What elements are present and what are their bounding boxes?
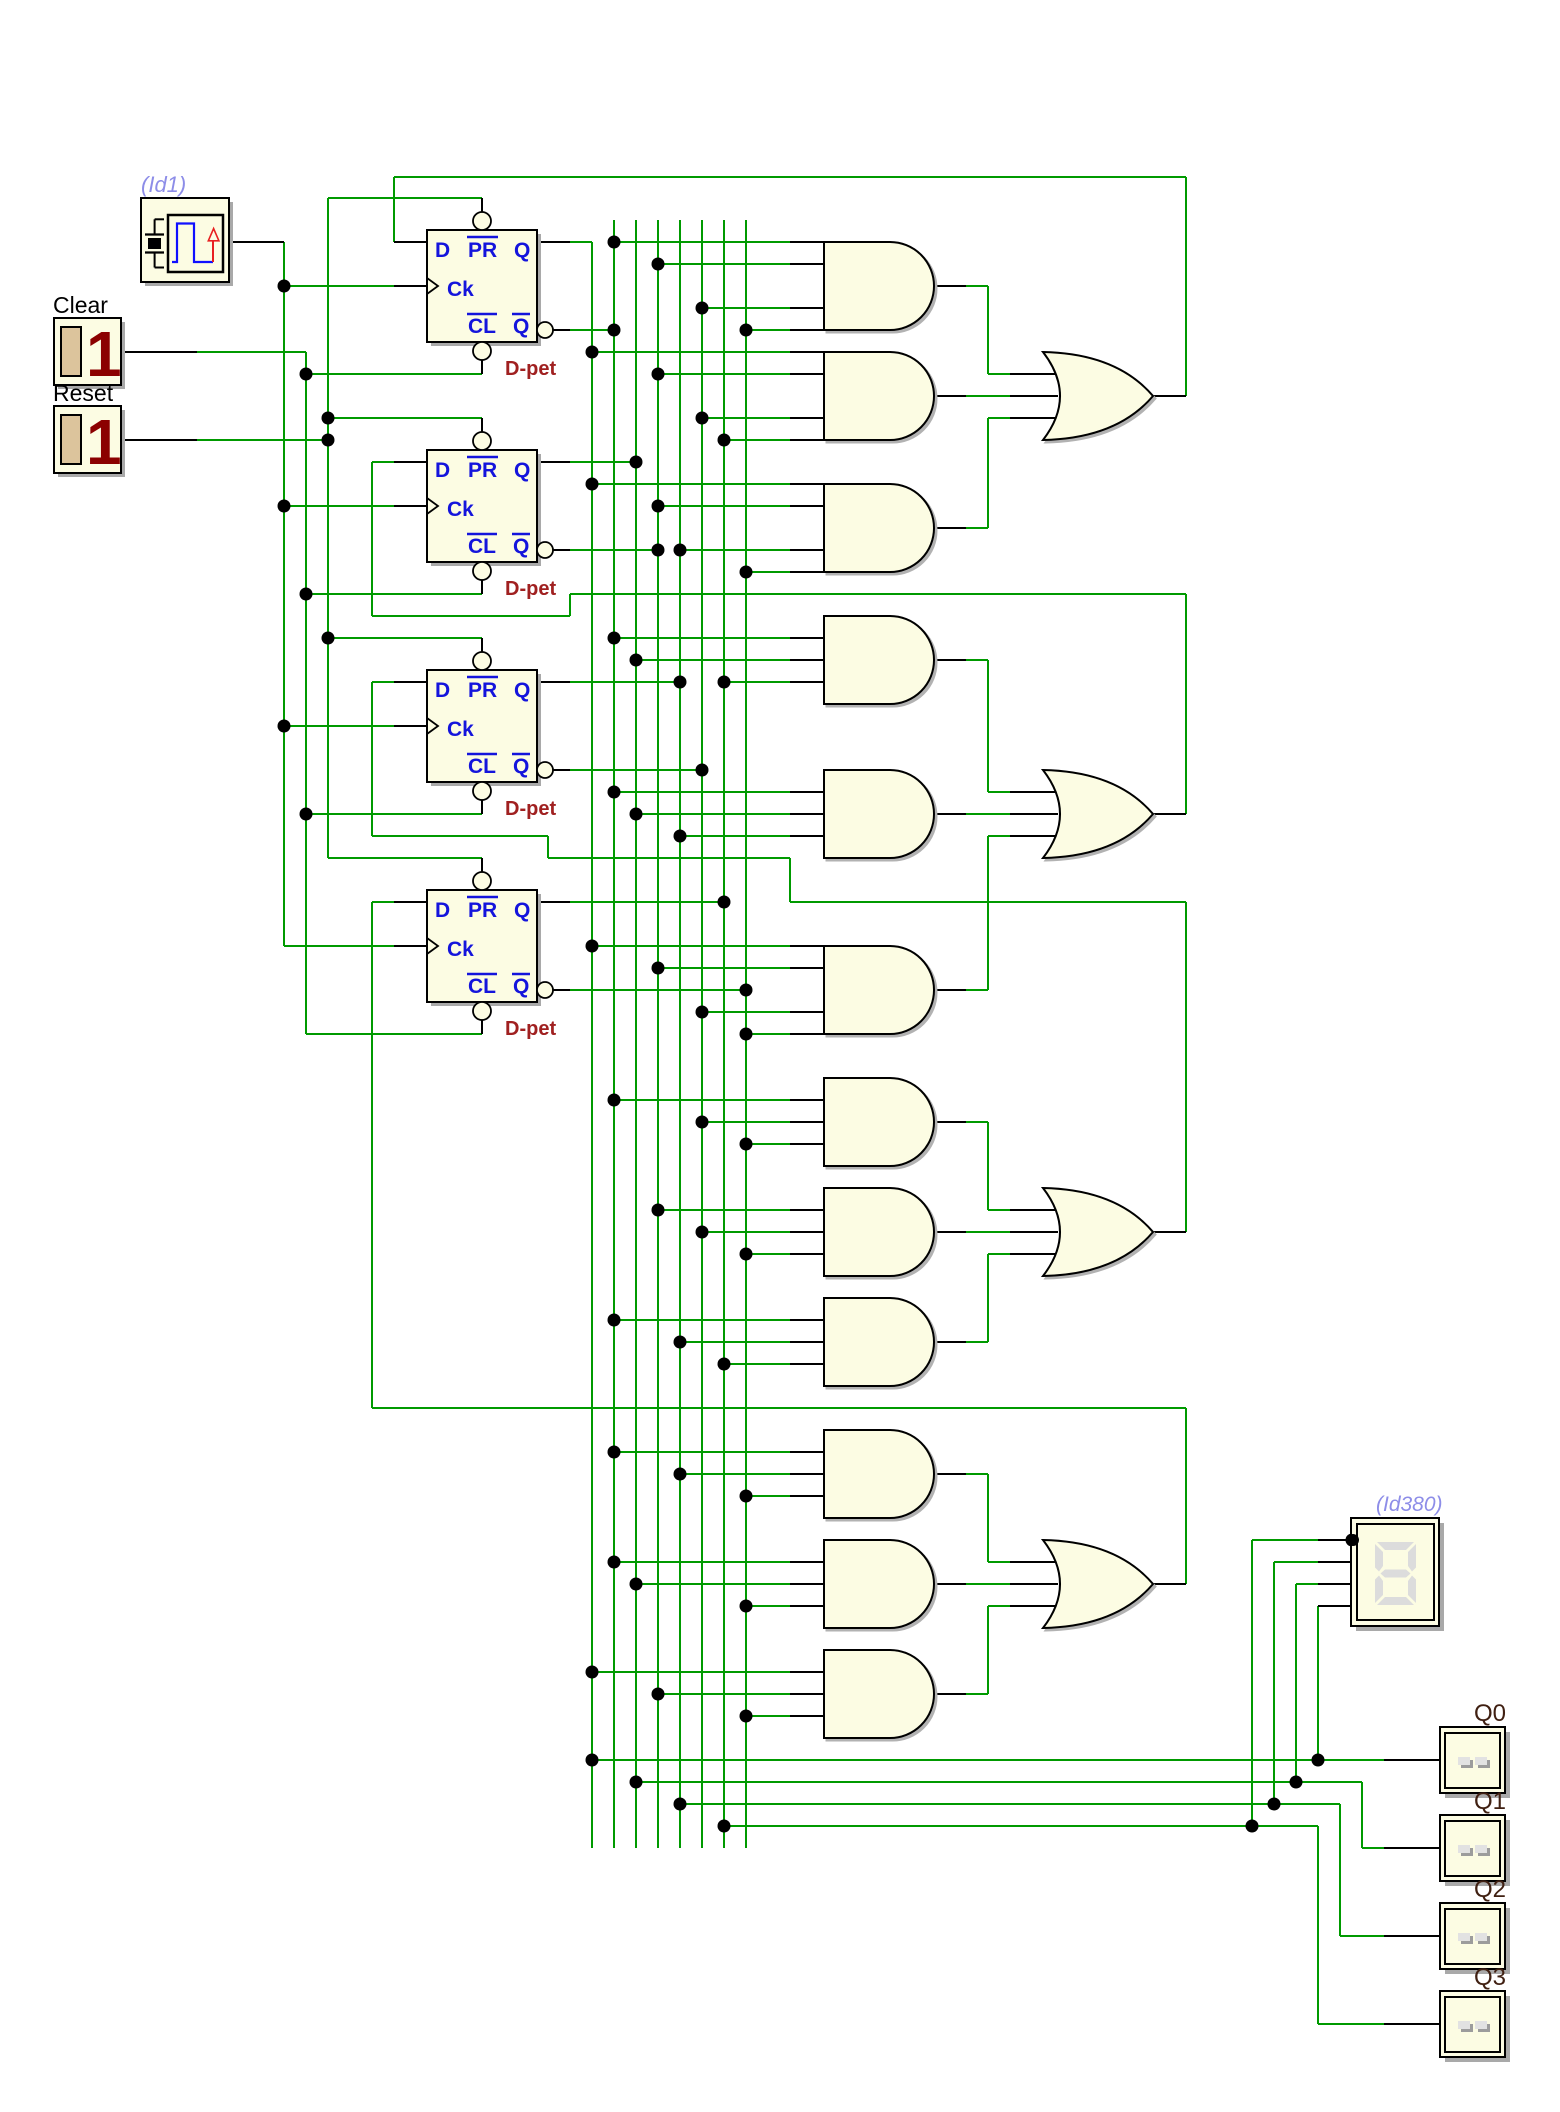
svg-text:Q: Q — [514, 239, 530, 262]
svg-text:D-pet: D-pet — [505, 358, 556, 380]
svg-text:D: D — [435, 459, 450, 482]
svg-text:Q: Q — [513, 535, 529, 558]
svg-text:CL: CL — [468, 975, 496, 998]
svg-text:CL: CL — [468, 535, 496, 558]
svg-text:Q: Q — [513, 315, 529, 338]
svg-text:D-pet: D-pet — [505, 1018, 556, 1040]
svg-text:Ck: Ck — [447, 938, 474, 961]
svg-text:PR: PR — [468, 239, 497, 262]
svg-text:Q: Q — [514, 899, 530, 922]
svg-text:Q3: Q3 — [1474, 1964, 1506, 1991]
svg-text:D: D — [435, 239, 450, 262]
svg-text:Ck: Ck — [447, 498, 474, 521]
svg-text:Reset: Reset — [53, 380, 114, 406]
svg-text:PR: PR — [468, 459, 497, 482]
svg-text:PR: PR — [468, 679, 497, 702]
svg-text:Q: Q — [514, 679, 530, 702]
svg-text:D: D — [435, 899, 450, 922]
svg-text:1: 1 — [86, 406, 122, 478]
svg-text:Q2: Q2 — [1474, 1876, 1506, 1903]
svg-text:Q: Q — [513, 975, 529, 998]
svg-text:D-pet: D-pet — [505, 798, 556, 820]
svg-text:(Id1): (Id1) — [141, 172, 186, 197]
svg-text:Ck: Ck — [447, 718, 474, 741]
svg-text:Q1: Q1 — [1474, 1788, 1506, 1815]
svg-text:PR: PR — [468, 899, 497, 922]
svg-text:(Id380): (Id380) — [1376, 1493, 1443, 1516]
svg-text:CL: CL — [468, 755, 496, 778]
svg-text:Q0: Q0 — [1474, 1700, 1506, 1727]
svg-text:Q: Q — [514, 459, 530, 482]
svg-text:D: D — [435, 679, 450, 702]
svg-text:CL: CL — [468, 315, 496, 338]
svg-text:Q: Q — [513, 755, 529, 778]
svg-text:Clear: Clear — [53, 292, 108, 318]
svg-text:D-pet: D-pet — [505, 578, 556, 600]
svg-text:Ck: Ck — [447, 278, 474, 301]
